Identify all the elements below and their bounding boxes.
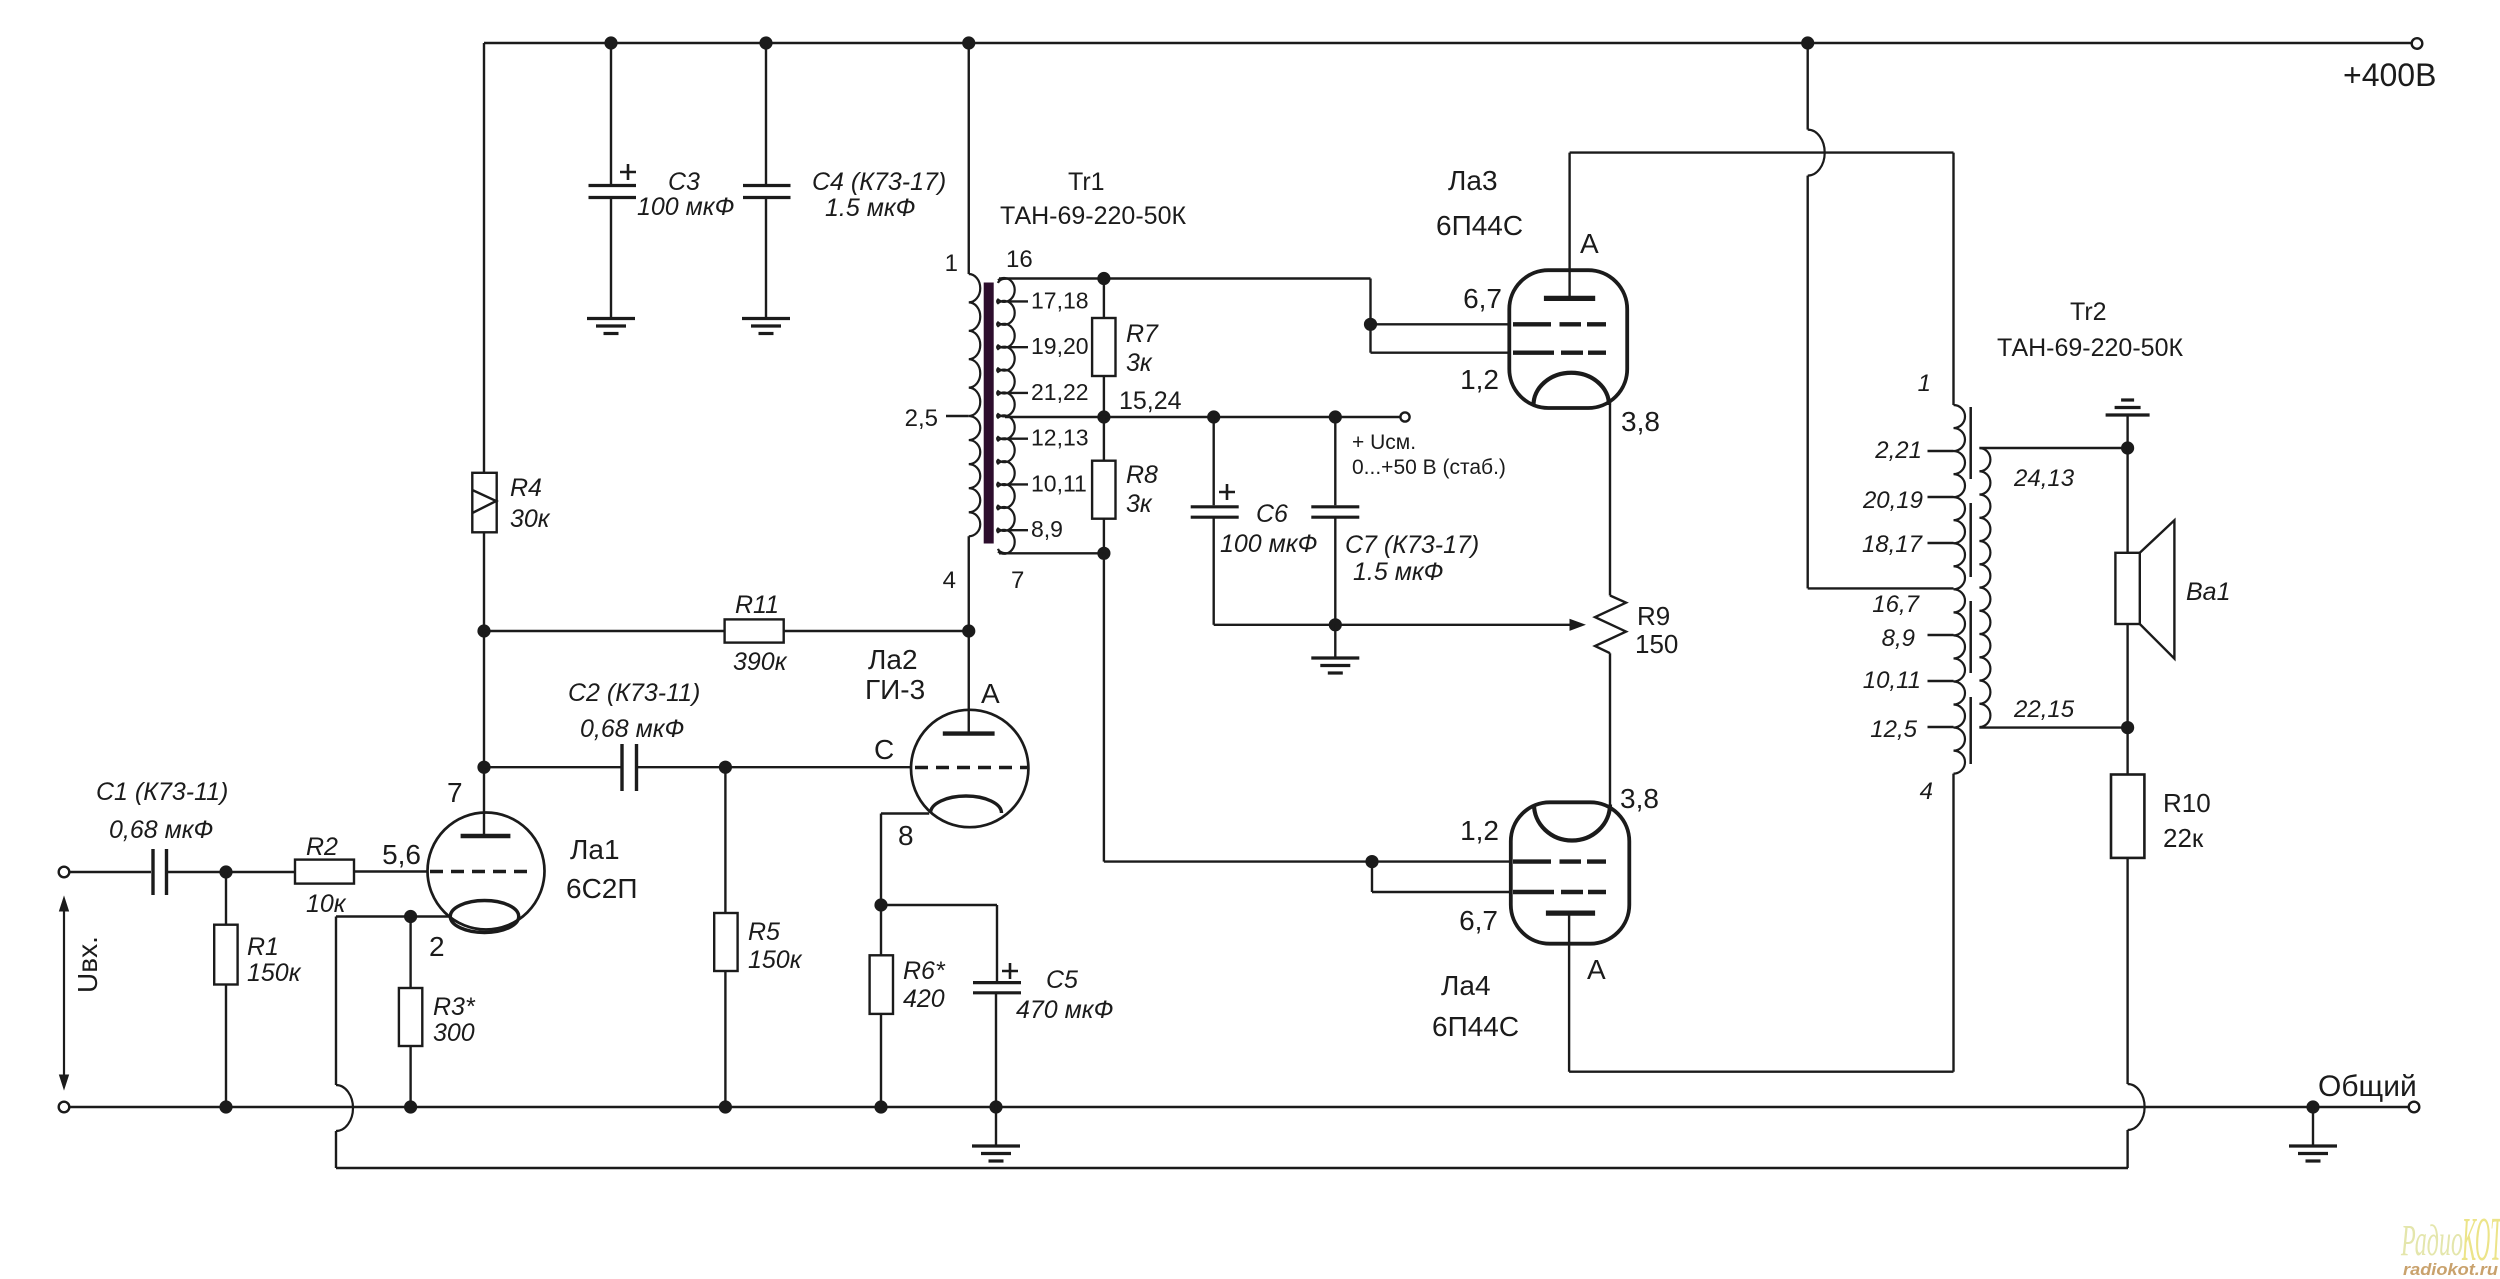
svg-text:1,2: 1,2 (1460, 815, 1499, 846)
wire C4 top lead (765, 43, 767, 184)
svg-text:150к: 150к (748, 946, 803, 974)
svg-text:ТАН-69-220-50К: ТАН-69-220-50К (1000, 202, 1186, 230)
tube La2 anode plate (943, 731, 995, 735)
svg-text:R1: R1 (247, 933, 279, 961)
label Tr2 (1997, 298, 2183, 362)
transformer Tr2 secondary winding (1979, 448, 1990, 727)
svg-text:Tr1: Tr1 (1068, 168, 1105, 196)
label C1 (96, 778, 228, 844)
svg-text:0,68 мкФ: 0,68 мкФ (109, 816, 213, 844)
node C6 top (1207, 410, 1220, 423)
label La3 pin A (1580, 228, 1599, 259)
wire R6 bottom lead (880, 1014, 882, 1107)
wire Tr2 pin1 lead (1952, 153, 1954, 405)
svg-text:C6: C6 (1256, 500, 1288, 528)
wire C1 to R2 (168, 871, 295, 873)
label C3 (637, 168, 734, 221)
svg-text:Ла2: Ла2 (868, 644, 918, 675)
svg-text:100 мкФ: 100 мкФ (637, 193, 734, 221)
wire bottom return line (336, 1167, 2128, 1169)
node rail R1 (219, 1100, 232, 1113)
tube La3 cathode (1534, 373, 1610, 405)
tube La3 anode plate (1544, 296, 1595, 301)
label R3 (433, 993, 476, 1047)
node R3 top (404, 910, 417, 923)
wire 16-net drop 2 (1369, 324, 1371, 352)
node C7 ground (1329, 618, 1342, 631)
tube La2 envelope (911, 710, 1028, 827)
svg-text:R3*: R3* (433, 993, 476, 1021)
transformer Tr2 core (1969, 407, 1972, 764)
label Tr2 pin 2,21 (1874, 437, 1922, 464)
svg-text:0...+50 В (стаб.): 0...+50 В (стаб.) (1352, 456, 1506, 479)
wire C6 bottom lead (1212, 517, 1214, 624)
svg-text:Ba1: Ba1 (2186, 578, 2230, 606)
svg-text:30к: 30к (510, 505, 551, 533)
svg-text:24,13: 24,13 (2013, 465, 2075, 492)
wire C5 bottom lead (995, 993, 997, 1107)
svg-text:Ла3: Ла3 (1448, 165, 1498, 196)
wire Tr1-16 lead (999, 277, 1371, 279)
transformer Tr1 pin 2,5 tap (946, 415, 969, 417)
label Tr1 pin 2,5 (905, 405, 938, 432)
svg-text:+400В: +400В (2343, 57, 2436, 93)
resistor R5 (714, 913, 737, 971)
node rail R6 (874, 1100, 887, 1113)
node speaker top (2121, 441, 2134, 454)
resistor R10 (2111, 775, 2144, 858)
wire C3 bottom lead (610, 198, 612, 319)
wire R5 top lead (724, 767, 726, 913)
svg-text:Uвх.: Uвх. (72, 936, 103, 993)
tube La1 anode plate (461, 834, 511, 838)
svg-text:+ Uсм.: + Uсм. (1352, 431, 1416, 454)
svg-text:150: 150 (1635, 629, 1678, 659)
svg-text:2,5: 2,5 (905, 405, 938, 432)
wire C3 top lead (610, 43, 612, 184)
svg-text:R5: R5 (748, 918, 780, 946)
svg-text:6П44С: 6П44С (1432, 1011, 1519, 1042)
svg-text:17,18: 17,18 (1031, 287, 1089, 313)
wire to La4 grid 1,2 (1372, 860, 1511, 862)
wire R6 top lead (880, 905, 882, 955)
label R6 (903, 957, 946, 1013)
tube La4 cathode (1534, 805, 1610, 841)
svg-text:Общий: Общий (2318, 1070, 2417, 1103)
label La1 (566, 834, 638, 904)
label La4 pin 6,7 (1459, 905, 1498, 936)
resistor R6 (870, 955, 893, 1014)
svg-text:22,15: 22,15 (2013, 696, 2075, 723)
node rail C5 (989, 1100, 1002, 1113)
svg-text:С: С (874, 734, 894, 765)
wire Tr1-7 lead (999, 552, 1104, 554)
terminal Ucm (1400, 412, 1409, 421)
label R11 (733, 591, 788, 676)
node rail R3 (404, 1100, 417, 1113)
svg-text:R6*: R6* (903, 957, 946, 985)
svg-text:6П44С: 6П44С (1436, 210, 1523, 241)
svg-text:Ла4: Ла4 (1441, 970, 1491, 1001)
wire 15,24 line (1005, 416, 1400, 418)
svg-text:21,22: 21,22 (1031, 379, 1089, 405)
wire R10 top lead (2126, 728, 2128, 775)
label Tr1 pin 16 (1006, 246, 1033, 273)
transformer Tr2 primary taps (1928, 451, 1954, 727)
ground C4 (742, 319, 790, 334)
wire common rail (69, 1106, 2408, 1108)
resistor R8 (1092, 461, 1115, 519)
label Tr2 pin 20,19 (1862, 487, 1923, 514)
tube La4 envelope (1511, 802, 1630, 943)
wire La4 anode lead (1568, 913, 1570, 1072)
wire input to C1 (69, 871, 151, 873)
label R2 (306, 833, 347, 918)
svg-text:390к: 390к (733, 648, 788, 676)
svg-text:300: 300 (433, 1019, 475, 1047)
label Tr2 pin 18,17 (1862, 531, 1924, 558)
svg-text:6С2П: 6С2П (566, 873, 638, 904)
node 15,24 / R7R8 (1097, 410, 1110, 423)
svg-text:100 мкФ: 100 мкФ (1220, 530, 1317, 558)
svg-text:R9: R9 (1637, 601, 1670, 631)
svg-text:8,9: 8,9 (1031, 516, 1063, 542)
node speaker bottom (2121, 721, 2134, 734)
svg-text:C4 (К73-17): C4 (К73-17) (812, 168, 946, 196)
svg-text:10,11: 10,11 (1863, 667, 1921, 694)
label La2 pin A (981, 678, 1000, 709)
tube La3 control grid (dashed) (1513, 351, 1606, 355)
wire speaker top lead (2126, 448, 2128, 553)
svg-text:6,7: 6,7 (1463, 283, 1502, 314)
label La3 pin 6,7 (1463, 283, 1502, 314)
capacitor C4 plates (743, 186, 791, 198)
transformer Tr1 secondary taps (1008, 301, 1028, 530)
svg-text:C1 (К73-11): C1 (К73-11) (96, 778, 228, 806)
wire to La4 node (1104, 860, 1372, 862)
wire La3 anode lead (1568, 153, 1570, 299)
capacitor C2 plates (622, 744, 637, 791)
label Tr2 pin 16,7 (1872, 591, 1920, 618)
ground C3 (587, 319, 635, 334)
label Ucm (1352, 431, 1506, 479)
svg-text:ГИ-3: ГИ-3 (865, 674, 925, 705)
wire ground top stem (2126, 415, 2128, 448)
terminal common left (59, 1102, 70, 1113)
wire ground right stem (2312, 1107, 2314, 1146)
svg-text:18,17: 18,17 (1862, 531, 1924, 558)
node La3 screen (1364, 318, 1377, 331)
svg-text:2: 2 (429, 931, 445, 962)
wire R8 top lead (1103, 417, 1105, 461)
label R9 (1635, 601, 1678, 659)
node R5 top (719, 761, 732, 774)
wire R10 bottom with hop (2128, 858, 2145, 1168)
label La2 (865, 644, 925, 705)
wire C4 bottom lead (765, 198, 767, 319)
label R8 (1126, 461, 1158, 518)
svg-text:C2 (К73-11): C2 (К73-11) (568, 679, 700, 707)
resistor R7 (1092, 318, 1115, 376)
wire to La3 grid 1,2 (1371, 352, 1510, 354)
label R10 (2163, 788, 2211, 853)
label La4 pin A (1587, 954, 1606, 985)
node R1 top (219, 865, 232, 878)
wire 16-net drop (1369, 279, 1371, 325)
tube La1 envelope (428, 813, 545, 930)
svg-text:5,6: 5,6 (382, 839, 421, 870)
wire C7 ground stem (1334, 625, 1336, 658)
svg-text:R4: R4 (510, 474, 542, 502)
capacitor C7 plates (1311, 507, 1359, 517)
tube La4 control grid (dashed) (1513, 859, 1606, 863)
tube La1 cathode (450, 901, 518, 933)
svg-text:1,2: 1,2 (1460, 364, 1499, 395)
svg-text:3,8: 3,8 (1620, 783, 1659, 814)
svg-text:7: 7 (1011, 567, 1024, 594)
svg-text:8,9: 8,9 (1882, 625, 1915, 652)
resistor R1 (214, 925, 237, 985)
wire C6-C7 bottom bus (1214, 623, 1570, 626)
label Ba1 (2186, 578, 2230, 606)
wire R5 bottom lead (724, 971, 726, 1107)
node La4 grid (1365, 855, 1378, 868)
svg-text:10,11: 10,11 (1031, 470, 1087, 496)
ground C5 (972, 1146, 1020, 1161)
svg-text:1: 1 (1918, 370, 1931, 397)
svg-text:3к: 3к (1126, 349, 1153, 377)
transformer Tr2 primary winding (1954, 405, 1966, 774)
ground Tr2 secondary (up) (2106, 400, 2150, 415)
node R6 top (874, 898, 887, 911)
wire speaker bottom lead (2126, 624, 2128, 728)
wire La2 anode lead (968, 631, 970, 734)
svg-text:150к: 150к (247, 959, 302, 987)
transformer Tr1 primary winding (969, 274, 981, 536)
wire R1 bottom lead (225, 985, 227, 1108)
label Tr2 pin 22,15 (2013, 696, 2075, 723)
wire R2 to La1 grid (354, 870, 428, 872)
wire R11 right (784, 630, 969, 632)
svg-text:470 мкФ: 470 мкФ (1016, 996, 1113, 1024)
capacitor C3 plates (589, 164, 637, 198)
label R1 (247, 933, 302, 987)
node R7 top (1097, 272, 1110, 285)
node top rail / Tr2 supply (1801, 36, 1814, 49)
svg-text:0,68 мкФ: 0,68 мкФ (580, 715, 684, 743)
svg-text:R11: R11 (735, 591, 779, 619)
watermark Радио КОТ (2400, 1206, 2500, 1279)
wire C6 top lead (1212, 417, 1214, 505)
svg-text:12,5: 12,5 (1870, 716, 1917, 743)
resistor R11 (725, 619, 784, 642)
label La3 pin 3,8 (1621, 406, 1660, 437)
svg-text:А: А (981, 678, 1000, 709)
label La2 pin C (874, 734, 894, 765)
wire La3 anode to Tr2 (1570, 151, 1954, 153)
label Tr2 pin 8,9 (1882, 625, 1915, 652)
wire supply drop with hop (1808, 43, 1825, 588)
svg-text:Радио: Радио (2400, 1216, 2463, 1265)
speaker Ba1 (2115, 520, 2174, 658)
svg-text:C5: C5 (1046, 966, 1078, 994)
wire La3 cathode lead (1609, 401, 1611, 596)
tube La2 grid (dashed) (915, 766, 1027, 769)
wire C2 left (484, 766, 621, 768)
svg-text:420: 420 (903, 985, 945, 1013)
wire Tr2 pin4 lead (1952, 774, 1954, 1072)
node top rail / C3 (604, 36, 617, 49)
terminal input top (59, 867, 70, 878)
wire R8-7 net drop (1103, 553, 1105, 861)
resistor R3 (399, 988, 422, 1046)
wire C7 top lead (1334, 417, 1336, 505)
label Tr1 (1000, 168, 1186, 230)
svg-text:4: 4 (1920, 778, 1933, 805)
wire supply to Tr2 16,7 (1808, 587, 1954, 589)
label C5 (1016, 966, 1113, 1024)
label Tr1 pin 4 (943, 567, 956, 594)
svg-text:4: 4 (943, 567, 956, 594)
svg-text:C3: C3 (668, 168, 700, 196)
label La4 pin 1,2 (1460, 815, 1499, 846)
wire R7 top lead (1103, 279, 1105, 319)
label Tr2 pin 24,13 (2013, 465, 2075, 492)
wire Tr1 pin1 lead (968, 43, 970, 274)
svg-text:7: 7 (447, 777, 463, 808)
svg-text:radiokot.ru: radiokot.ru (2403, 1260, 2499, 1279)
label La4 (1432, 970, 1519, 1042)
label Tr2 pin 4 (1920, 778, 1933, 805)
svg-text:15,24: 15,24 (1119, 387, 1182, 415)
wire La4 anode to Tr2 (1569, 1070, 1953, 1072)
label R4 (510, 474, 551, 533)
label La2 pin 8 (898, 820, 914, 851)
resistor R9 (zigzag) (1595, 596, 1626, 654)
svg-text:8: 8 (898, 820, 914, 851)
wire La1 cathode to left (336, 915, 451, 917)
svg-text:2,21: 2,21 (1874, 437, 1922, 464)
svg-text:1: 1 (945, 250, 958, 277)
label La1 pin 7 (447, 777, 463, 808)
wire R7 bottom lead (1103, 376, 1105, 417)
transformer Tr1 core (984, 283, 994, 544)
resistor R2 (295, 860, 354, 884)
transformer Tr1 secondary winding (997, 278, 1015, 554)
svg-text:3к: 3к (1126, 490, 1153, 518)
svg-text:1.5 мкФ: 1.5 мкФ (1353, 558, 1444, 586)
svg-text:R2: R2 (306, 833, 338, 861)
terminal common right (2409, 1102, 2420, 1113)
svg-text:R10: R10 (2163, 788, 2211, 818)
wire R8 bottom lead (1103, 519, 1105, 554)
node top rail / C4 (759, 36, 772, 49)
label La1 pin 2 (429, 931, 445, 962)
label R7 (1126, 320, 1159, 377)
label Tr1 pin 1 (945, 250, 958, 277)
wire R9 to La4 cathode (1609, 653, 1611, 806)
label C7 (1345, 531, 1479, 586)
node Tr1 pin4 / R11 / La2 anode (962, 624, 975, 637)
label Общий (2318, 1070, 2417, 1103)
ground right (2289, 1146, 2337, 1161)
label La3 pin 1,2 (1460, 364, 1499, 395)
tube La3 screen grid (dashed) (1513, 322, 1606, 326)
labels Tr1 secondary taps (1031, 287, 1089, 542)
arrow R9 wiper (1570, 620, 1585, 631)
node rail R5 (719, 1100, 732, 1113)
label Uвх (72, 936, 103, 993)
svg-text:Ла1: Ла1 (570, 834, 620, 865)
capacitor C1 plates (153, 849, 167, 895)
svg-text:22к: 22к (2163, 823, 2204, 853)
svg-text:R7: R7 (1126, 320, 1159, 348)
capacitor C6 plates (1191, 484, 1239, 517)
tube La3 envelope (1509, 270, 1627, 408)
node rail ground right (2306, 1100, 2319, 1113)
wire 7-net drop 2 (1371, 862, 1373, 892)
node top rail / Tr1 pin1 (962, 36, 975, 49)
label La1 pin 5,6 (382, 839, 421, 870)
node Tr1-7 / R8 (1097, 547, 1110, 560)
capacitor C5 plates (973, 963, 1021, 993)
wire C5 ground stem (995, 1107, 997, 1146)
wire Tr2 24,13 lead (1979, 447, 2127, 449)
resistor R4 (472, 473, 496, 533)
label Tr2 pin 10,11 (1863, 667, 1921, 694)
svg-text:16: 16 (1006, 246, 1033, 273)
wire C2 right (638, 766, 911, 768)
svg-text:16,7: 16,7 (1872, 591, 1920, 618)
wire R11 left (484, 630, 725, 632)
label C2 (568, 679, 700, 743)
label C4 (812, 168, 946, 222)
label C6 (1220, 500, 1317, 558)
node C7 top (1329, 410, 1342, 423)
arrow Uвх (60, 897, 69, 1089)
tube La2 cathode (931, 796, 1002, 813)
svg-text:1.5 мкФ: 1.5 мкФ (825, 194, 916, 222)
svg-text:3,8: 3,8 (1621, 406, 1660, 437)
wire node down to La1 anode (483, 767, 485, 836)
svg-text:А: А (1587, 954, 1606, 985)
svg-text:C7 (К73-17): C7 (К73-17) (1345, 531, 1479, 559)
wire C7 bottom lead (1334, 517, 1336, 624)
tube La1 grid (dashed) (430, 870, 534, 873)
label La3 (1436, 165, 1523, 241)
wire Tr2 22,15 lead (1979, 726, 2127, 728)
wire R3 bottom lead (409, 1046, 411, 1107)
tube La4 screen grid (dashed) (1513, 890, 1606, 894)
svg-text:6,7: 6,7 (1459, 905, 1498, 936)
wire La2 cathode lead (881, 814, 929, 906)
wire to La3 screen 6,7 (1371, 323, 1510, 325)
wire cathode drop with hop (336, 917, 353, 1169)
label 15,24 (1119, 387, 1182, 415)
svg-text:12,13: 12,13 (1031, 425, 1089, 451)
wire R4 to node (483, 532, 485, 631)
node C2 left (477, 761, 490, 774)
wire node down to C2 node (483, 631, 485, 767)
wire R1 top lead (225, 872, 227, 925)
svg-text:А: А (1580, 228, 1599, 259)
wire Tr1 pin4 lead (968, 536, 970, 631)
wire to La4 screen 6,7 (1372, 891, 1511, 893)
svg-text:Tr2: Tr2 (2070, 298, 2107, 326)
svg-text:ТАН-69-220-50К: ТАН-69-220-50К (1997, 334, 2183, 362)
label Tr2 pin 1 (1918, 370, 1931, 397)
wire R3 top lead (409, 917, 411, 989)
